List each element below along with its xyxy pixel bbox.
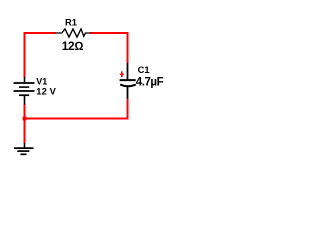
wire: left vertical + top-left segment to resistor [25, 33, 56, 77]
ground [14, 143, 34, 154]
label R1 [65, 16, 77, 27]
capacitor C1 (polarized) [120, 63, 136, 99]
svg-text:C1: C1 [138, 64, 150, 75]
label V1 [36, 76, 47, 86]
value 12 V [36, 86, 56, 96]
plus polarity mark [120, 71, 124, 77]
svg-text:12 V: 12 V [36, 86, 56, 96]
junction at battery/ground/bottom-wire tee [23, 117, 27, 121]
svg-text:R1: R1 [65, 16, 77, 27]
resistor R1 [55, 29, 91, 37]
svg-text:4.7µF: 4.7µF [136, 76, 164, 88]
battery V1 [14, 77, 35, 105]
svg-text:V1: V1 [36, 76, 47, 86]
value 4.7uF [136, 76, 164, 88]
wire: battery bottom to ground through junction [24, 104, 26, 143]
label C1 [138, 64, 150, 75]
value 12&#937; [62, 39, 84, 53]
wire: capacitor bottom to bottom-right corner and bottom horizontal [25, 98, 128, 118]
svg-text:12Ω: 12Ω [62, 39, 84, 53]
wire: resistor right lead to top-right corner down to capacitor [90, 33, 128, 63]
